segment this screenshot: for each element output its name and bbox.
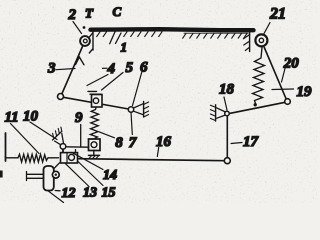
fixed support 10 (hatched) [53,127,64,145]
svg-text:2: 2 [68,7,77,23]
bar 18 (pivot 17 to joint 19) [230,102,286,113]
fixed pivot 7 with support [128,102,148,118]
pin joint bar16 / link17 [224,158,230,164]
joint 19 (bar18 / link19) [285,99,291,105]
left wall [5,133,7,161]
svg-text:C: C [113,4,122,19]
label 16 with leader [156,134,172,157]
junction spring20 / bar18 [254,103,257,106]
label 15 with leader [78,162,116,201]
slider block 13/15 [61,150,78,163]
label 10 with leader [23,109,57,140]
label 5 with leader [102,60,134,90]
svg-text:12: 12 [62,186,76,201]
link 19 [264,48,286,100]
label 19 with leader dash [272,84,312,100]
label 4 with leader [87,61,116,86]
left edge blob [0,171,3,178]
svg-text:14: 14 [103,168,117,183]
label 13 with leader [66,164,98,201]
svg-text:5: 5 [126,60,134,76]
label 21 with leader [264,6,287,35]
cylinder 12 [44,163,60,191]
svg-text:15: 15 [102,186,116,201]
damper block (below spring 8) [89,139,101,158]
pivot 21 (fixed hinge right) [255,34,267,46]
label 18 with leader [219,82,235,111]
fixed pivot 17 support (hatched) [210,105,229,121]
chevron on link 3 [76,57,85,65]
spring 11 [6,154,59,162]
label 6 with leader [133,60,149,106]
diagonal below cylinder [48,191,64,203]
slider block 5 on lever [88,91,102,107]
svg-text:19: 19 [297,84,313,100]
lever arm to fixed pivot 7 [64,97,129,109]
horizontal link 9 (pin to damper) [66,146,89,148]
label 2 with leader [68,7,82,34]
label 20 with leader dash [282,56,300,83]
link pin to slider block [62,149,64,153]
label 14 with leader [73,153,118,183]
svg-text:18: 18 [219,82,235,98]
svg-text:3: 3 [47,61,56,77]
ceiling hatching [97,32,248,38]
label 12 with leader dash [55,186,75,201]
ceiling left end bracket [89,32,93,54]
fixed ceiling beam 1 [91,29,254,30]
svg-text:17: 17 [243,134,259,150]
svg-text:11: 11 [5,110,19,126]
cylinder rod fork to wall [27,172,44,181]
joint A (link3 / lever) [58,94,64,100]
ceiling right end bracket with hatch [243,32,249,52]
vertical link 17 [226,116,228,158]
svg-text:7: 7 [129,135,137,151]
spring 20 [253,48,265,105]
pin joint 10 [60,144,66,150]
link 3 [62,46,83,94]
svg-text:13: 13 [83,186,97,201]
label 3 with leader [47,61,75,77]
label 9 with leader [75,110,83,147]
pivot 2 (fixed hinge left) [80,26,93,46]
svg-text:1: 1 [121,40,128,55]
label 8 with leader [99,132,123,151]
svg-text:8: 8 [115,135,123,151]
label 7 with leader [129,112,137,151]
label 11 with leader [5,110,40,154]
svg-text:T: T [85,6,94,21]
spring 8 [90,108,98,140]
svg-text:9: 9 [75,110,83,126]
label 17 with leader dash [231,134,259,150]
ceiling hatch long V mark [110,32,121,44]
svg-text:21: 21 [269,6,286,23]
long bar 16 [78,159,225,161]
